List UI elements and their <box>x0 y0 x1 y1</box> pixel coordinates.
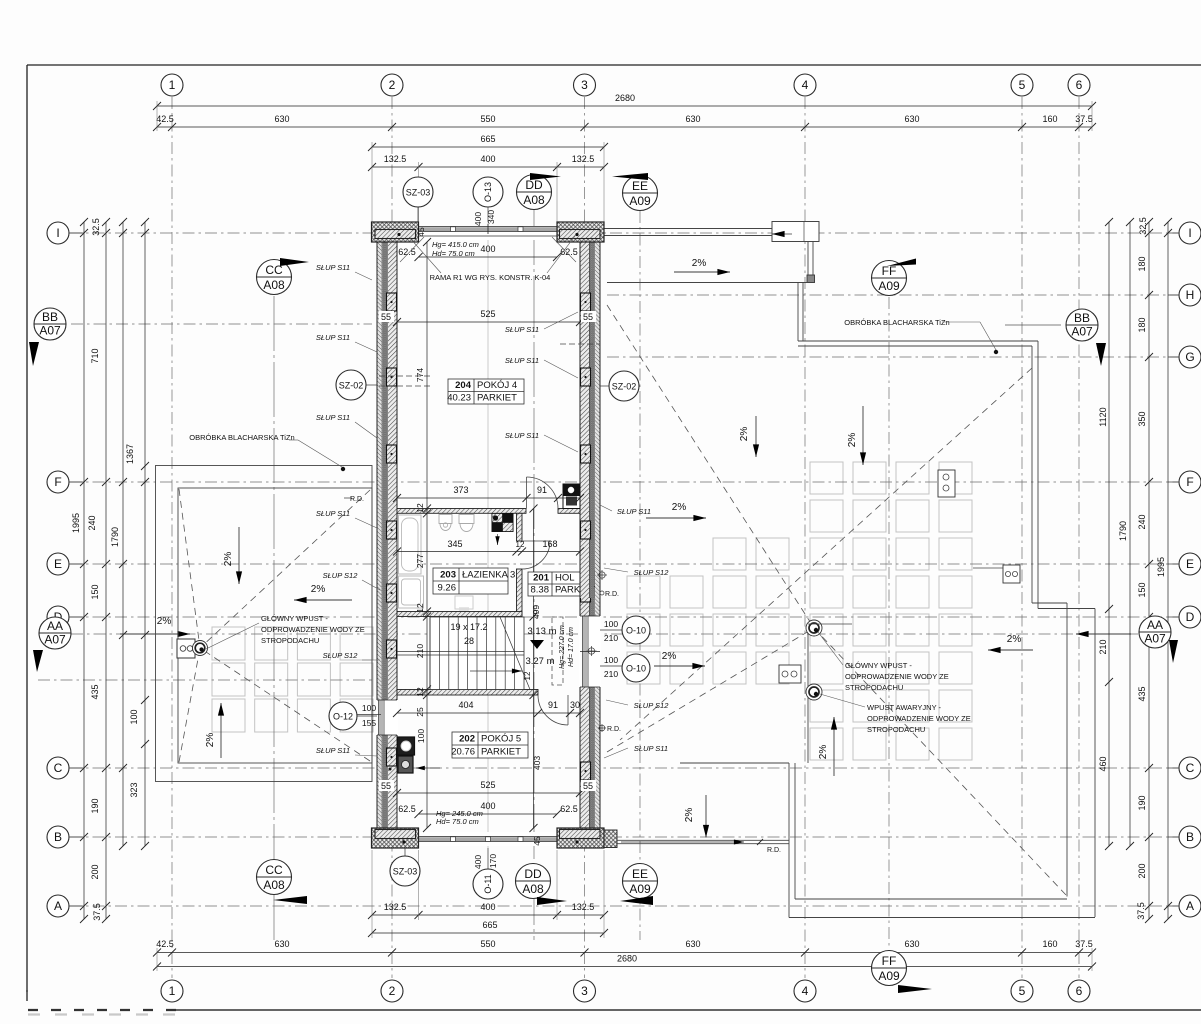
svg-text:550: 550 <box>480 939 495 949</box>
svg-text:2%: 2% <box>818 745 829 760</box>
svg-text:62.5: 62.5 <box>398 804 416 814</box>
svg-text:277: 277 <box>415 554 425 568</box>
marker CC/A08 bottom <box>257 860 292 895</box>
marker SZ-03 top <box>403 177 433 207</box>
svg-text:25: 25 <box>415 707 425 717</box>
dim 525 top <box>397 321 580 323</box>
svg-text:6: 6 <box>1076 78 1083 92</box>
bathroom floor sink <box>455 596 473 609</box>
svg-text:F: F <box>1186 475 1193 489</box>
svg-text:91: 91 <box>548 700 558 710</box>
slope arrow left roof up <box>220 703 222 758</box>
left roof main drain <box>193 641 208 656</box>
svg-text:SZ-03: SZ-03 <box>393 867 418 877</box>
svg-text:A09: A09 <box>629 882 651 896</box>
svg-text:8.38: 8.38 <box>531 585 550 596</box>
svg-text:2%: 2% <box>157 616 172 627</box>
svg-text:2%: 2% <box>662 651 677 662</box>
svg-text:Hd= 17.0 cm: Hd= 17.0 cm <box>568 627 575 667</box>
svg-text:ODPROWADZENIE WODY ZE: ODPROWADZENIE WODY ZE <box>261 625 365 634</box>
svg-text:6: 6 <box>1076 984 1083 998</box>
svg-text:1120: 1120 <box>1098 407 1108 426</box>
right roof skylight grid upper <box>810 462 972 570</box>
top canopy beam right of building <box>604 228 772 230</box>
svg-text:150: 150 <box>1137 582 1147 597</box>
sheet frame top border <box>27 64 1201 66</box>
svg-text:132.5: 132.5 <box>384 902 407 912</box>
svg-text:DD: DD <box>525 178 543 192</box>
svg-text:42.5: 42.5 <box>156 114 174 124</box>
svg-text:100: 100 <box>604 619 618 629</box>
svg-text:EE: EE <box>632 867 648 881</box>
svg-text:37.5: 37.5 <box>1075 939 1093 949</box>
wall columns SLUP left wall <box>387 293 397 311</box>
svg-text:A: A <box>1186 899 1194 913</box>
svg-text:FF: FF <box>882 954 897 968</box>
top dim chain 132.5/400/132.5 <box>372 166 604 168</box>
svg-text:170: 170 <box>488 854 498 868</box>
wardrobe dashed outline in hall <box>552 617 563 685</box>
svg-text:CC: CC <box>265 863 283 877</box>
svg-text:774: 774 <box>415 368 425 382</box>
grid circles rows left <box>47 222 69 244</box>
svg-text:FF: FF <box>882 264 897 278</box>
top extension lines <box>371 142 373 222</box>
svg-text:201: 201 <box>533 573 550 584</box>
marker O-11 bottom <box>473 869 503 899</box>
svg-text:132.5: 132.5 <box>572 902 595 912</box>
interior vertical dim chain x=427 <box>426 242 428 828</box>
svg-text:665: 665 <box>482 920 497 930</box>
svg-text:1995: 1995 <box>71 513 81 533</box>
left roof diagonal to drain from bottom-left <box>179 648 200 762</box>
section line DD vertical <box>533 210 535 940</box>
right roof left edge lower <box>788 763 790 918</box>
stairs treads <box>430 617 524 690</box>
window opening left wall O-12 <box>376 700 398 735</box>
svg-text:30: 30 <box>570 700 580 710</box>
right vertical dim chain lines <box>1108 222 1110 846</box>
svg-text:435: 435 <box>90 684 100 699</box>
svg-text:3: 3 <box>581 78 588 92</box>
dim 373/91 above bathroom <box>397 497 580 499</box>
right roof diagonals <box>607 305 814 628</box>
slope arrow left roof left <box>294 599 352 601</box>
vertical reference line through O-13/O-11 <box>487 222 489 848</box>
svg-text:202: 202 <box>459 734 475 745</box>
svg-text:STROPODACHU: STROPODACHU <box>845 683 903 692</box>
svg-text:1367: 1367 <box>125 444 135 464</box>
svg-text:STROPODACHU: STROPODACHU <box>867 725 925 734</box>
window opening right wall O-10 <box>579 616 601 687</box>
svg-text:PARKIET: PARKIET <box>481 747 521 758</box>
sheet frame left border <box>26 65 28 992</box>
svg-text:180: 180 <box>1137 256 1147 271</box>
svg-text:710: 710 <box>90 348 100 363</box>
svg-text:I: I <box>1188 226 1191 240</box>
svg-text:525: 525 <box>480 309 495 319</box>
svg-text:ODPROWADZENIE WODY ZE: ODPROWADZENIE WODY ZE <box>867 714 971 723</box>
stair landing edge <box>429 617 431 690</box>
svg-text:I: I <box>56 226 59 240</box>
svg-text:200: 200 <box>1137 863 1147 878</box>
svg-text:Hd= 75.0 cm: Hd= 75.0 cm <box>436 817 479 826</box>
svg-text:R.D.: R.D. <box>767 847 781 854</box>
building top wall window band <box>419 226 558 240</box>
right roof fixture box 2 <box>938 470 955 497</box>
section line CC vertical <box>273 296 275 940</box>
svg-text:SŁUP S12: SŁUP S12 <box>634 568 670 577</box>
svg-text:2%: 2% <box>684 808 695 823</box>
svg-text:2%: 2% <box>847 433 858 448</box>
right roof fixture box 3 at E row <box>1003 565 1020 583</box>
left vertical dim chain lines <box>83 222 85 919</box>
svg-text:55: 55 <box>583 781 593 791</box>
wall columns SLUP right wall <box>581 293 591 311</box>
column grid dashed lines 1-6 <box>172 97 1079 978</box>
top dim chain 665 <box>372 146 604 148</box>
svg-text:37.5: 37.5 <box>1075 114 1093 124</box>
lintel dashed lines room 204 <box>379 375 430 377</box>
svg-text:F: F <box>54 475 61 489</box>
bottom dim chain 132.5/400/132.5 <box>372 914 604 916</box>
right roof inner corner line <box>807 628 809 763</box>
building bottom-right corner block <box>557 828 604 848</box>
svg-text:3: 3 <box>581 984 588 998</box>
dim 345/12/168 in bathroom <box>397 551 580 553</box>
right roof fixture box 1 <box>779 665 801 683</box>
marker EE/A09 bottom <box>623 864 658 899</box>
toilet <box>439 515 452 524</box>
svg-text:5: 5 <box>1019 984 1026 998</box>
kitchen fixture upper <box>398 737 415 755</box>
bathroom right partition wall lower <box>517 569 523 617</box>
svg-text:SŁUP S12: SŁUP S12 <box>323 651 359 660</box>
svg-text:O-11: O-11 <box>483 874 493 893</box>
bathroom right partition wall upper <box>517 513 523 541</box>
svg-text:SŁUP S11: SŁUP S11 <box>617 507 651 516</box>
marker AA/A07 left <box>39 617 71 649</box>
building left wall <box>377 222 397 848</box>
svg-text:A08: A08 <box>263 878 285 892</box>
svg-text:345: 345 <box>447 539 462 549</box>
svg-text:404: 404 <box>458 700 473 710</box>
svg-text:PARKIET: PARKIET <box>477 393 517 404</box>
svg-text:AA: AA <box>47 619 63 633</box>
dashed line y=680 left of roof <box>38 679 372 681</box>
svg-text:Hg= 415.0 cm: Hg= 415.0 cm <box>432 240 479 249</box>
svg-text:EE: EE <box>632 179 648 193</box>
svg-text:323: 323 <box>129 782 139 797</box>
bottom dim chain column spacing <box>157 952 1092 954</box>
svg-text:SŁUP S11: SŁUP S11 <box>316 333 350 342</box>
svg-text:O-13: O-13 <box>483 182 493 202</box>
building top-right corner block <box>557 222 604 242</box>
svg-text:2%: 2% <box>739 427 750 442</box>
svg-text:A07: A07 <box>1144 632 1166 646</box>
right roof slope arrows <box>755 416 757 457</box>
svg-text:2%: 2% <box>1007 634 1022 645</box>
left roof outer edge <box>156 466 373 782</box>
svg-text:WPUST AWARYJNY -: WPUST AWARYJNY - <box>867 703 942 712</box>
hall top partition stub <box>558 509 580 514</box>
svg-text:460: 460 <box>1098 756 1108 771</box>
door arc hall to room 204 <box>527 477 559 509</box>
svg-text:210: 210 <box>415 644 425 658</box>
svg-text:204: 204 <box>455 380 472 391</box>
svg-text:GŁÓWNY WPUST -: GŁÓWNY WPUST - <box>261 614 328 623</box>
svg-text:SZ-03: SZ-03 <box>406 188 431 198</box>
left roof diagonal to drain from top-right <box>200 490 370 648</box>
svg-text:GŁÓWNY WPUST -: GŁÓWNY WPUST - <box>845 661 912 670</box>
svg-text:ŁAZIENKA 3: ŁAZIENKA 3 <box>462 570 515 581</box>
svg-text:91: 91 <box>537 485 547 495</box>
svg-text:SŁUP S11: SŁUP S11 <box>505 431 539 440</box>
svg-text:12: 12 <box>415 603 425 613</box>
grid circles columns bottom <box>161 980 183 1002</box>
stairs center rail <box>397 651 524 653</box>
svg-text:525: 525 <box>480 780 495 790</box>
svg-text:203: 203 <box>440 570 456 581</box>
grid circles columns top <box>161 74 183 96</box>
bottom canopy left of EE <box>617 839 789 841</box>
svg-text:240: 240 <box>1137 514 1147 529</box>
svg-text:132.5: 132.5 <box>572 154 595 164</box>
bathtub <box>399 515 422 574</box>
marker EE/A09 top <box>623 176 658 211</box>
marker O-13 top <box>473 177 503 207</box>
svg-text:3.13 m: 3.13 m <box>527 626 556 637</box>
marker FF/A09 bottom <box>872 951 907 986</box>
svg-text:550: 550 <box>480 114 495 124</box>
marker SZ-02 right <box>609 371 639 401</box>
svg-text:350: 350 <box>1137 411 1147 426</box>
marker DD/A08 top <box>517 175 552 210</box>
svg-text:2%: 2% <box>672 502 687 513</box>
svg-text:12: 12 <box>523 671 532 680</box>
room label 203 LAZIENKA 3 <box>433 568 508 594</box>
washbasin <box>459 515 474 524</box>
svg-text:B: B <box>54 830 62 844</box>
svg-text:A08: A08 <box>522 882 544 896</box>
room label 202 POKOJ 5 <box>452 732 528 758</box>
svg-text:168: 168 <box>542 539 557 549</box>
svg-text:45: 45 <box>416 227 426 237</box>
bottom window labels <box>419 813 558 815</box>
svg-text:340: 340 <box>486 210 496 224</box>
svg-text:100: 100 <box>604 655 618 665</box>
dim 525 bottom <box>397 792 580 794</box>
svg-text:2680: 2680 <box>617 954 637 964</box>
svg-text:2680: 2680 <box>615 93 635 103</box>
svg-text:E: E <box>54 557 62 571</box>
marker SZ-02 left <box>336 370 366 400</box>
svg-text:R.D.: R.D. <box>607 726 621 733</box>
svg-text:100: 100 <box>129 709 139 724</box>
lintel dashed lines room 204 right <box>560 343 600 345</box>
svg-text:A08: A08 <box>263 278 285 292</box>
svg-text:210: 210 <box>604 669 618 679</box>
right roof notch bottom <box>680 762 789 764</box>
svg-text:630: 630 <box>274 114 289 124</box>
kitchen wall dot <box>389 768 392 771</box>
marker BB/A07 left <box>34 308 66 340</box>
svg-text:SŁUP S11: SŁUP S11 <box>634 744 668 753</box>
room label 204 POKOJ 4 <box>448 379 524 404</box>
svg-text:1: 1 <box>169 984 176 998</box>
section line FF vertical <box>888 297 890 949</box>
svg-text:OBRÓBKA BLACHARSKA TiZn: OBRÓBKA BLACHARSKA TiZn <box>844 318 949 327</box>
marker FF/A09 top <box>872 261 907 296</box>
svg-text:SŁUP S11: SŁUP S11 <box>316 746 350 755</box>
svg-text:SŁUP S12: SŁUP S12 <box>323 571 359 580</box>
left roof skylight grid <box>212 627 373 732</box>
marker BB/A07 right <box>1066 309 1098 341</box>
svg-text:32.5: 32.5 <box>91 218 101 236</box>
svg-text:2: 2 <box>389 984 396 998</box>
top dim chain total 2680 <box>157 105 1092 107</box>
svg-text:H: H <box>1186 288 1195 302</box>
svg-text:STROPODACHU: STROPODACHU <box>261 636 319 645</box>
right roof top edge <box>797 283 799 342</box>
svg-text:BB: BB <box>42 310 58 324</box>
svg-text:12: 12 <box>415 687 425 697</box>
right roof emergency drain <box>806 684 822 700</box>
svg-text:SŁUP S11: SŁUP S11 <box>316 509 350 518</box>
room label 201 HOL <box>528 572 584 596</box>
svg-text:Hg= 227.0 cm: Hg= 227.0 cm <box>559 625 566 669</box>
svg-text:37.5: 37.5 <box>1136 902 1146 920</box>
svg-text:C: C <box>1186 761 1195 775</box>
svg-text:400: 400 <box>473 855 483 869</box>
building bottom-left corner block <box>372 828 419 848</box>
marker O-10 lower <box>622 654 650 682</box>
right roof skylight grid lower <box>627 538 972 760</box>
svg-text:D: D <box>1186 610 1195 624</box>
flue block 2x2 <box>492 514 513 532</box>
right roof step at D row <box>1032 602 1067 604</box>
right roof main drain <box>806 620 822 636</box>
svg-text:ODPROWADZENIE WODY ZE: ODPROWADZENIE WODY ZE <box>845 672 949 681</box>
svg-text:E: E <box>1186 557 1194 571</box>
svg-text:9.26: 9.26 <box>438 583 457 594</box>
svg-text:G: G <box>1185 350 1194 364</box>
section line AA horizontal <box>71 633 1138 635</box>
svg-text:400: 400 <box>480 154 495 164</box>
svg-text:150: 150 <box>90 584 100 599</box>
building right wall <box>580 222 600 848</box>
svg-text:O-10: O-10 <box>626 664 646 674</box>
svg-text:A07: A07 <box>1071 325 1093 339</box>
stairwell bottom partition wall <box>397 690 538 696</box>
section line BB horizontal right stub <box>1005 324 1061 326</box>
svg-text:12: 12 <box>415 503 425 513</box>
svg-text:O-10: O-10 <box>626 626 646 636</box>
svg-text:630: 630 <box>685 939 700 949</box>
svg-text:1: 1 <box>169 78 176 92</box>
svg-text:HOL: HOL <box>555 573 575 584</box>
svg-text:2%: 2% <box>311 584 326 595</box>
left roof inner edge <box>178 488 372 763</box>
svg-text:2%: 2% <box>692 258 707 269</box>
svg-text:400: 400 <box>480 902 495 912</box>
svg-text:62.5: 62.5 <box>560 804 578 814</box>
left roof diagonal to drain from top-left <box>179 489 200 648</box>
svg-text:55: 55 <box>381 781 391 791</box>
svg-text:AA: AA <box>1147 618 1163 632</box>
bathroom bottom partition wall <box>397 612 522 617</box>
svg-text:400: 400 <box>480 244 495 254</box>
svg-text:100: 100 <box>416 729 426 743</box>
svg-text:2%: 2% <box>223 552 234 567</box>
svg-text:POKÓJ 4: POKÓJ 4 <box>477 380 517 391</box>
svg-text:160: 160 <box>1042 939 1057 949</box>
svg-text:630: 630 <box>904 939 919 949</box>
svg-text:3.27 m: 3.27 m <box>525 656 554 667</box>
svg-text:210: 210 <box>1098 639 1108 654</box>
door arc stairwell to room 202 <box>538 695 568 725</box>
svg-text:2: 2 <box>389 78 396 92</box>
svg-text:630: 630 <box>274 939 289 949</box>
right roof bottom edge <box>789 917 1095 919</box>
svg-text:32.5: 32.5 <box>1138 217 1148 235</box>
svg-text:160: 160 <box>1042 114 1057 124</box>
svg-text:2%: 2% <box>205 733 216 748</box>
svg-text:499: 499 <box>531 605 541 619</box>
dim 404/91/30 below stairs <box>397 712 580 714</box>
section line EE vertical <box>639 211 641 940</box>
bottom dim chain 665 <box>372 932 604 934</box>
svg-text:28: 28 <box>464 636 474 646</box>
svg-text:400: 400 <box>473 212 483 226</box>
svg-text:C: C <box>54 761 63 775</box>
svg-text:190: 190 <box>90 798 100 813</box>
svg-text:45: 45 <box>532 836 542 846</box>
svg-text:55: 55 <box>381 312 391 322</box>
svg-text:SŁUP S11: SŁUP S11 <box>316 263 350 272</box>
section line BB horizontal left <box>71 323 372 325</box>
kitchen fixture lower <box>398 756 413 773</box>
svg-text:A07: A07 <box>44 633 66 647</box>
svg-text:5: 5 <box>1019 78 1026 92</box>
marker O-12 left <box>329 702 357 730</box>
door arc bathroom <box>522 541 550 569</box>
svg-text:19 x 17.2: 19 x 17.2 <box>450 622 487 632</box>
svg-text:A09: A09 <box>878 279 900 293</box>
svg-text:1790: 1790 <box>1118 521 1128 541</box>
svg-text:A09: A09 <box>878 969 900 983</box>
svg-text:42.5: 42.5 <box>156 939 174 949</box>
svg-text:1995: 1995 <box>1156 557 1166 577</box>
svg-text:O-12: O-12 <box>333 712 353 722</box>
bottom-left light dashes <box>28 1013 176 1015</box>
svg-text:665: 665 <box>480 134 495 144</box>
slope arrow left roof down <box>238 527 240 584</box>
svg-text:A09: A09 <box>629 194 651 208</box>
stairs walk line arrow <box>470 670 522 672</box>
left roof diagonal to drain from bottom-right <box>200 648 370 761</box>
svg-text:A07: A07 <box>39 324 61 338</box>
marker DD/A08 bottom <box>516 864 551 899</box>
svg-text:R.D.: R.D. <box>350 496 364 503</box>
building top-left corner block <box>372 222 419 242</box>
svg-text:200: 200 <box>90 864 100 879</box>
bottom dim chain total 2680 <box>157 966 1092 968</box>
svg-text:SŁUP S11: SŁUP S11 <box>505 356 539 365</box>
svg-text:1790: 1790 <box>110 527 120 547</box>
svg-text:SZ-02: SZ-02 <box>339 381 364 391</box>
svg-text:155: 155 <box>362 718 376 728</box>
